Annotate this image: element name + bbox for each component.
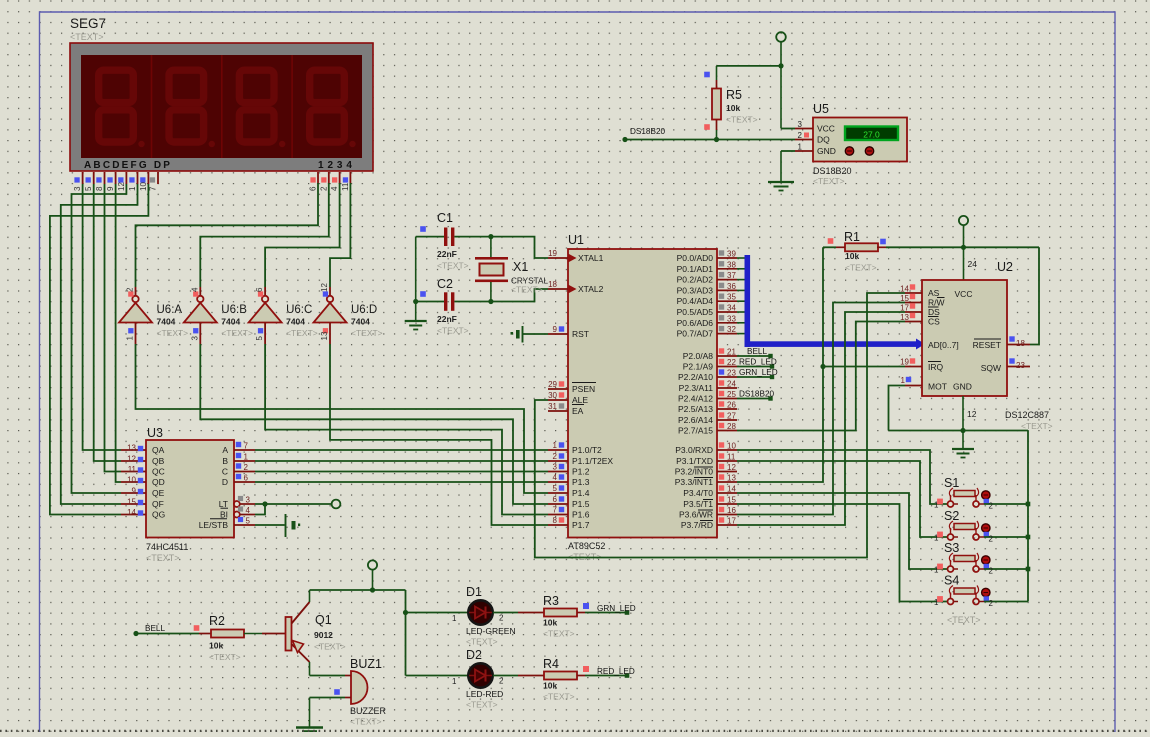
- svg-text:P2.7/A15: P2.7/A15: [678, 426, 713, 436]
- svg-text:74HC4511: 74HC4511: [146, 542, 188, 552]
- svg-text:6: 6: [255, 287, 264, 292]
- svg-text:<TEXT>: <TEXT>: [947, 615, 981, 625]
- svg-text:GND: GND: [817, 146, 836, 156]
- svg-text:P0.5/AD5: P0.5/AD5: [677, 307, 714, 317]
- svg-text:12: 12: [127, 455, 136, 464]
- svg-text:1: 1: [128, 186, 137, 191]
- svg-text:QF: QF: [152, 499, 164, 509]
- svg-text:34: 34: [727, 304, 736, 313]
- svg-text:2: 2: [989, 502, 994, 511]
- svg-text:3: 3: [246, 496, 251, 505]
- svg-text:11: 11: [341, 182, 350, 191]
- svg-text:R5: R5: [726, 88, 742, 102]
- svg-text:17: 17: [900, 304, 909, 313]
- svg-text:AD[0..7]: AD[0..7]: [928, 340, 959, 350]
- svg-text:31: 31: [548, 402, 557, 411]
- svg-text:XTAL1: XTAL1: [578, 253, 604, 263]
- svg-text:<TEXT>: <TEXT>: [813, 176, 845, 186]
- svg-text:BUZZER: BUZZER: [350, 706, 387, 716]
- svg-text:LE/STB: LE/STB: [199, 520, 229, 530]
- svg-text:A: A: [222, 445, 228, 455]
- svg-text:13: 13: [320, 331, 329, 340]
- svg-text:32: 32: [727, 325, 736, 334]
- svg-text:1: 1: [798, 143, 803, 152]
- svg-text:13: 13: [900, 313, 909, 322]
- svg-text:U5: U5: [813, 102, 829, 116]
- svg-text:10k: 10k: [209, 641, 223, 651]
- svg-text:P2.3/A11: P2.3/A11: [679, 383, 714, 393]
- svg-text:P2.0/A8: P2.0/A8: [683, 351, 714, 361]
- svg-text:<TEXT>: <TEXT>: [157, 328, 189, 338]
- svg-text:1: 1: [244, 453, 249, 462]
- svg-text:QA: QA: [152, 445, 165, 455]
- svg-text:7404: 7404: [157, 317, 176, 327]
- svg-text:4: 4: [246, 506, 251, 515]
- svg-text:SEG7: SEG7: [70, 16, 106, 31]
- svg-text:10: 10: [727, 442, 736, 451]
- svg-text:B: B: [222, 456, 228, 466]
- svg-text:24: 24: [727, 380, 736, 389]
- svg-text:2: 2: [989, 567, 994, 576]
- svg-text:10: 10: [127, 476, 136, 485]
- svg-text:LT: LT: [219, 499, 228, 509]
- svg-text:10k: 10k: [845, 251, 859, 261]
- svg-text:7: 7: [244, 442, 249, 451]
- svg-text:37: 37: [727, 271, 736, 280]
- svg-text:R3: R3: [543, 594, 559, 608]
- svg-text:<TEXT>: <TEXT>: [70, 32, 104, 42]
- svg-text:CS: CS: [928, 317, 940, 327]
- svg-text:11: 11: [727, 453, 736, 462]
- svg-text:25: 25: [727, 390, 736, 399]
- svg-text:P1.2: P1.2: [572, 467, 590, 477]
- svg-text:35: 35: [727, 293, 736, 302]
- svg-text:S2: S2: [944, 509, 959, 523]
- svg-text:1234: 1234: [318, 160, 356, 171]
- svg-text:DS18B20: DS18B20: [813, 166, 852, 176]
- svg-text:P1.7: P1.7: [572, 520, 590, 530]
- svg-text:C2: C2: [437, 277, 453, 291]
- svg-text:2: 2: [989, 599, 994, 608]
- svg-text:AT89C52: AT89C52: [568, 541, 605, 551]
- svg-text:P3.1/TXD: P3.1/TXD: [676, 456, 713, 466]
- svg-text:10k: 10k: [726, 103, 740, 113]
- svg-text:<TEXT>: <TEXT>: [286, 328, 318, 338]
- svg-text:ALE: ALE: [572, 395, 588, 405]
- svg-text:S1: S1: [944, 476, 959, 490]
- svg-text:R2: R2: [209, 614, 225, 628]
- svg-text:<TEXT>: <TEXT>: [543, 692, 575, 702]
- svg-text:U6:D: U6:D: [351, 304, 377, 316]
- svg-text:LED-RED: LED-RED: [466, 689, 503, 699]
- svg-text:1: 1: [553, 441, 558, 450]
- svg-text:P1.1/T2EX: P1.1/T2EX: [572, 456, 613, 466]
- svg-text:3: 3: [798, 120, 803, 129]
- svg-text:2: 2: [989, 535, 994, 544]
- svg-text:10k: 10k: [543, 618, 557, 628]
- svg-text:EA: EA: [572, 406, 584, 416]
- svg-text:P1.0/T2: P1.0/T2: [572, 445, 602, 455]
- svg-text:8: 8: [553, 516, 558, 525]
- svg-text:U6:C: U6:C: [286, 304, 312, 316]
- svg-text:ABCDEFG DP: ABCDEFG DP: [84, 160, 172, 171]
- svg-text:2: 2: [499, 677, 504, 686]
- svg-text:7: 7: [149, 186, 158, 191]
- svg-text:P3.6/WR: P3.6/WR: [679, 510, 713, 520]
- svg-text:19: 19: [548, 249, 557, 258]
- svg-text:C1: C1: [437, 211, 453, 225]
- svg-text:6: 6: [244, 474, 249, 483]
- svg-text:P1.6: P1.6: [572, 510, 590, 520]
- svg-text:D2: D2: [466, 648, 482, 662]
- svg-text:<TEXT>: <TEXT>: [221, 328, 253, 338]
- svg-text:2: 2: [798, 131, 803, 140]
- svg-text:GND: GND: [953, 382, 972, 392]
- svg-text:4: 4: [553, 473, 558, 482]
- svg-text:<TEXT>: <TEXT>: [146, 553, 180, 563]
- svg-text:12: 12: [320, 283, 329, 292]
- svg-text:VCC: VCC: [955, 289, 973, 299]
- svg-text:2: 2: [244, 463, 249, 472]
- svg-text:<TEXT>: <TEXT>: [351, 328, 383, 338]
- svg-text:18: 18: [1016, 339, 1025, 348]
- svg-text:14: 14: [127, 508, 136, 517]
- svg-text:RST: RST: [572, 329, 589, 339]
- svg-text:P1.5: P1.5: [572, 499, 590, 509]
- svg-text:P2.4/A12: P2.4/A12: [678, 394, 713, 404]
- svg-text:<TEXT>: <TEXT>: [511, 285, 543, 295]
- svg-text:BELL: BELL: [747, 347, 767, 356]
- svg-text:<TEXT>: <TEXT>: [314, 642, 346, 652]
- svg-text:P3.7/RD: P3.7/RD: [681, 520, 713, 530]
- svg-text:IRQ: IRQ: [928, 362, 944, 372]
- svg-text:7404: 7404: [351, 317, 370, 327]
- svg-text:P0.2/AD2: P0.2/AD2: [677, 275, 714, 285]
- svg-text:P2.2/A10: P2.2/A10: [678, 372, 713, 382]
- svg-text:2: 2: [126, 287, 135, 292]
- svg-text:GRN_LED: GRN_LED: [597, 604, 636, 613]
- svg-text:1: 1: [452, 614, 457, 623]
- svg-text:SQW: SQW: [981, 363, 1001, 373]
- svg-text:11: 11: [128, 465, 137, 474]
- svg-text:1: 1: [126, 336, 135, 341]
- svg-text:2: 2: [499, 614, 504, 623]
- svg-text:R4: R4: [543, 657, 559, 671]
- svg-text:2: 2: [319, 186, 328, 191]
- svg-text:3: 3: [190, 336, 199, 341]
- svg-text:P0.0/AD0: P0.0/AD0: [677, 253, 714, 263]
- svg-text:BELL: BELL: [145, 624, 165, 633]
- svg-text:XTAL2: XTAL2: [578, 284, 604, 294]
- svg-text:VCC: VCC: [817, 124, 835, 134]
- svg-text:36: 36: [727, 282, 736, 291]
- svg-text:<TEXT>: <TEXT>: [437, 326, 469, 336]
- svg-text:P0.7/AD7: P0.7/AD7: [677, 329, 714, 339]
- svg-text:P3.2/INT0: P3.2/INT0: [675, 467, 714, 477]
- svg-text:P2.6/A14: P2.6/A14: [678, 415, 713, 425]
- svg-text:13: 13: [127, 444, 136, 453]
- svg-text:C: C: [222, 467, 228, 477]
- svg-text:5: 5: [255, 336, 264, 341]
- svg-text:DS: DS: [928, 307, 940, 317]
- svg-text:DQ: DQ: [817, 135, 830, 145]
- svg-text:GRN_LED: GRN_LED: [739, 368, 778, 377]
- svg-text:22nF: 22nF: [437, 249, 457, 259]
- svg-text:QB: QB: [152, 456, 165, 466]
- svg-text:27.0: 27.0: [863, 130, 880, 140]
- svg-text:P3.5/T1: P3.5/T1: [683, 499, 713, 509]
- svg-text:R1: R1: [844, 230, 860, 244]
- svg-text:X1: X1: [513, 260, 528, 274]
- svg-text:QC: QC: [152, 467, 165, 477]
- svg-text:P2.5/A13: P2.5/A13: [678, 404, 713, 414]
- svg-text:28: 28: [727, 422, 736, 431]
- svg-text:6: 6: [553, 495, 558, 504]
- svg-text:P0.4/AD4: P0.4/AD4: [677, 296, 714, 306]
- svg-text:<TEXT>: <TEXT>: [437, 261, 469, 271]
- svg-text:AS: AS: [928, 288, 940, 298]
- svg-text:33: 33: [727, 314, 736, 323]
- svg-text:RED_LED: RED_LED: [597, 667, 635, 676]
- svg-text:1: 1: [452, 677, 457, 686]
- svg-text:14: 14: [900, 285, 909, 294]
- svg-text:Q1: Q1: [315, 613, 332, 627]
- svg-text:P1.3: P1.3: [572, 477, 590, 487]
- svg-text:QG: QG: [152, 510, 165, 520]
- svg-text:<TEXT>: <TEXT>: [350, 717, 382, 727]
- svg-text:7: 7: [553, 506, 558, 515]
- svg-text:P0.6/AD6: P0.6/AD6: [677, 318, 714, 328]
- svg-text:DS12C887: DS12C887: [1005, 410, 1049, 420]
- svg-text:<TEXT>: <TEXT>: [209, 652, 241, 662]
- svg-text:<TEXT>: <TEXT>: [543, 629, 575, 639]
- svg-text:P3.0/RXD: P3.0/RXD: [675, 445, 713, 455]
- svg-text:<TEXT>: <TEXT>: [1021, 421, 1053, 431]
- svg-text:D: D: [222, 477, 228, 487]
- svg-text:5: 5: [84, 186, 93, 191]
- svg-text:U1: U1: [568, 233, 584, 247]
- svg-text:QE: QE: [152, 488, 165, 498]
- svg-text:U2: U2: [997, 260, 1013, 274]
- svg-text:13: 13: [727, 474, 736, 483]
- svg-text:BI: BI: [220, 510, 228, 520]
- svg-text:10k: 10k: [543, 681, 557, 691]
- svg-text:R/W: R/W: [928, 298, 945, 308]
- svg-text:22: 22: [727, 358, 736, 367]
- svg-text:<TEXT>: <TEXT>: [466, 700, 498, 710]
- svg-text:7404: 7404: [286, 317, 305, 327]
- svg-text:U6:A: U6:A: [157, 304, 183, 316]
- svg-text:39: 39: [727, 250, 736, 259]
- svg-text:12: 12: [967, 409, 977, 419]
- svg-text:15: 15: [900, 294, 909, 303]
- svg-text:RESET: RESET: [973, 340, 1001, 350]
- svg-text:4: 4: [330, 186, 339, 191]
- svg-text:MOT: MOT: [928, 382, 947, 392]
- svg-text:DS18B20: DS18B20: [739, 390, 774, 399]
- svg-text:10: 10: [139, 182, 148, 191]
- svg-text:21: 21: [727, 348, 736, 357]
- svg-text:P3.4/T0: P3.4/T0: [683, 488, 713, 498]
- svg-text:5: 5: [553, 484, 558, 493]
- svg-text:P1.4: P1.4: [572, 488, 590, 498]
- svg-text:P0.1/AD1: P0.1/AD1: [677, 264, 714, 274]
- svg-text:U6:B: U6:B: [221, 304, 247, 316]
- svg-text:12: 12: [117, 182, 126, 191]
- svg-text:38: 38: [727, 260, 736, 269]
- svg-text:15: 15: [127, 498, 136, 507]
- svg-text:<TEXT>: <TEXT>: [466, 637, 498, 647]
- svg-text:9: 9: [553, 325, 558, 334]
- svg-text:2: 2: [553, 452, 558, 461]
- svg-text:LED-GREEN: LED-GREEN: [466, 626, 516, 636]
- svg-text:7404: 7404: [221, 317, 240, 327]
- svg-text:6: 6: [309, 186, 318, 191]
- svg-text:30: 30: [548, 391, 557, 400]
- svg-text:9: 9: [106, 186, 115, 191]
- svg-text:26: 26: [727, 401, 736, 410]
- svg-text:8: 8: [95, 186, 104, 191]
- svg-text:RED_LED: RED_LED: [739, 358, 777, 367]
- svg-text:9012: 9012: [314, 630, 333, 640]
- svg-text:9: 9: [132, 487, 137, 496]
- svg-text:27: 27: [727, 412, 736, 421]
- svg-text:1: 1: [901, 376, 906, 385]
- svg-text:19: 19: [900, 358, 909, 367]
- svg-text:<TEXT>: <TEXT>: [726, 115, 758, 125]
- svg-text:22nF: 22nF: [437, 314, 457, 324]
- svg-text:D1: D1: [466, 585, 482, 599]
- svg-text:23: 23: [1016, 361, 1025, 370]
- svg-text:29: 29: [548, 380, 557, 389]
- svg-text:U3: U3: [147, 426, 163, 440]
- svg-text:5: 5: [246, 517, 251, 526]
- svg-text:3: 3: [553, 463, 558, 472]
- svg-text:P2.1/A9: P2.1/A9: [683, 362, 714, 372]
- svg-text:PSEN: PSEN: [572, 384, 595, 394]
- svg-text:16: 16: [727, 506, 736, 515]
- svg-text:3: 3: [73, 186, 82, 191]
- svg-text:S4: S4: [944, 574, 959, 588]
- svg-text:P3.3/INT1: P3.3/INT1: [675, 477, 714, 487]
- svg-text:14: 14: [727, 485, 736, 494]
- svg-text:QD: QD: [152, 477, 165, 487]
- svg-text:4: 4: [190, 287, 199, 292]
- svg-text:17: 17: [727, 517, 736, 526]
- svg-text:24: 24: [968, 259, 978, 269]
- svg-text:<TEXT>: <TEXT>: [845, 263, 877, 273]
- svg-text:12: 12: [727, 463, 736, 472]
- svg-text:BUZ1: BUZ1: [350, 657, 382, 671]
- svg-text:S3: S3: [944, 541, 959, 555]
- svg-text:DS18B20: DS18B20: [630, 127, 665, 136]
- svg-text:15: 15: [727, 496, 736, 505]
- svg-text:P0.3/AD3: P0.3/AD3: [677, 285, 714, 295]
- svg-text:23: 23: [727, 369, 736, 378]
- svg-text:18: 18: [548, 280, 557, 289]
